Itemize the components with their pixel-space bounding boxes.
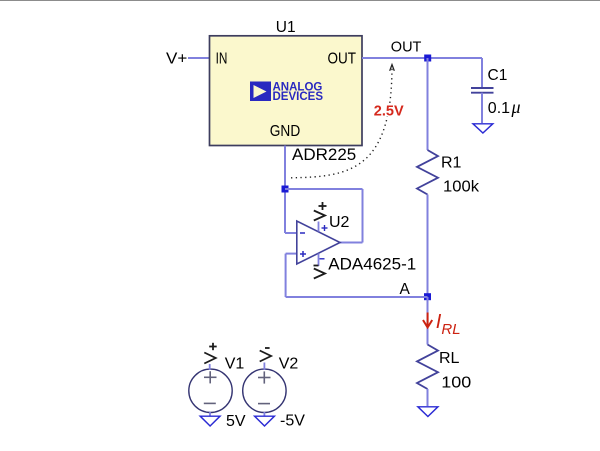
svg-text:R1: R1 (441, 155, 462, 172)
svg-text:V2: V2 (279, 356, 299, 373)
wire RL to ground (427, 389, 429, 406)
wire C1 to ground (481, 93, 483, 123)
ground under V2 (255, 416, 275, 426)
svg-text:C1: C1 (488, 67, 508, 84)
wire noninverting drop to bottom rail (285, 254, 287, 297)
svg-text:OUT: OUT (391, 40, 422, 56)
svg-text:2.5V: 2.5V (374, 104, 404, 120)
svg-text:A: A (400, 281, 411, 298)
wire V+ to IN (188, 57, 210, 59)
wire inverting input (285, 232, 297, 234)
current arrow IRL (423, 313, 432, 328)
wire OUT to C1 corner (362, 57, 482, 59)
wire OUT junction to R1 (427, 58, 429, 150)
svg-text:ADR225: ADR225 (292, 145, 356, 164)
svg-text:100k: 100k (443, 179, 480, 196)
junction node A (424, 293, 431, 300)
wire R1 to node A (427, 195, 429, 297)
svg-text:RL: RL (439, 350, 460, 367)
load resistor RL (417, 345, 438, 390)
voltage source V2 (243, 369, 286, 412)
Analog Devices logo (250, 82, 323, 104)
voltage reference U1 box (210, 36, 363, 146)
svg-text:-5V: -5V (280, 413, 305, 430)
op-amp inverting mark (300, 232, 305, 234)
ground under RL (418, 407, 438, 417)
svg-text:U2: U2 (329, 214, 350, 231)
svg-text:0.1μ: 0.1μ (488, 97, 521, 117)
svg-text:ADA4625-1: ADA4625-1 (328, 255, 416, 274)
wire feedback right (362, 189, 364, 243)
resistor R1 (417, 150, 438, 195)
svg-text:GND: GND (270, 123, 300, 140)
top border line (0, 0, 600, 2)
wire bottom rail to node A (286, 296, 428, 298)
op-amp noninverting mark (300, 251, 306, 257)
capacitor C1 (471, 88, 494, 93)
svg-text:U1: U1 (276, 19, 296, 36)
svg-text:OUT: OUT (328, 51, 357, 68)
dashed annotation arrow (291, 65, 394, 178)
wire U1 GND down to feedback junction and inverting input (284, 146, 286, 233)
svg-text:100: 100 (441, 375, 471, 392)
svg-text:V1: V1 (225, 356, 245, 373)
op-amp V+ supply pin (314, 202, 328, 232)
ground under C1 (473, 124, 493, 133)
junction OUT node (424, 55, 431, 62)
wire node A to RL (427, 297, 429, 345)
voltage source V1 (189, 369, 232, 412)
svg-text:5V: 5V (226, 413, 246, 430)
pin - of V2 (260, 348, 271, 370)
ground under V1 (200, 416, 220, 426)
svg-text:DEVICES: DEVICES (273, 91, 324, 103)
op-amp V- supply pin (314, 254, 326, 279)
svg-text:V+: V+ (166, 51, 187, 68)
wire feedback top (285, 188, 363, 190)
wire down to capacitor C1 (481, 58, 483, 88)
wire V1 to ground (209, 412, 211, 416)
op-amp U2 triangle (297, 221, 340, 264)
svg-text:IN: IN (216, 51, 228, 68)
wire V2 to ground (263, 412, 265, 416)
wire noninverting input (286, 253, 297, 255)
wire U2 output (340, 242, 363, 244)
pin + of V1 (204, 343, 216, 370)
junction feedback node (282, 186, 289, 193)
